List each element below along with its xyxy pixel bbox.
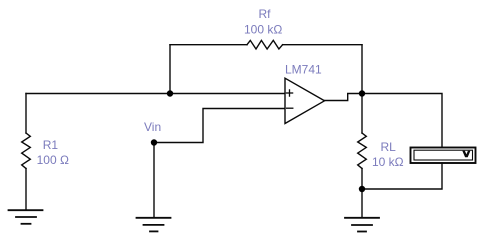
svg-text:Vin: Vin <box>144 120 161 134</box>
wire: R1 bottom to ground <box>25 169 27 211</box>
resistor R1 <box>22 133 31 169</box>
op-amp minus input marker <box>287 107 293 109</box>
wire: Vin node down to ground <box>153 143 155 218</box>
resistor Rf <box>247 40 283 49</box>
op-amp plus input marker <box>286 90 292 96</box>
label: voltmeter V symbol <box>462 151 470 158</box>
svg-text:100 Ω: 100 Ω <box>37 153 69 167</box>
wire: lower node to ground <box>361 189 363 218</box>
voltmeter M1 inner frame <box>414 150 473 160</box>
op-amp U1 LM741 triangle <box>285 78 325 123</box>
wire: RL bottom to lower node <box>361 169 363 190</box>
wire: output node to voltmeter top <box>362 94 442 148</box>
svg-text:LM741: LM741 <box>285 63 322 77</box>
wire: output node down to RL <box>361 94 363 134</box>
ground (below Vin) <box>137 218 171 232</box>
node: output junction dot <box>359 90 365 96</box>
svg-text:R1: R1 <box>43 138 59 152</box>
wire: op-amp output with step up to node <box>325 94 363 101</box>
svg-text:10 kΩ: 10 kΩ <box>372 155 404 169</box>
node: junction dot at inverting/feedback tap <box>167 90 173 96</box>
wire: main non-inverting net horizontal <box>26 93 285 95</box>
wire: feedback top right segment <box>283 44 362 46</box>
wire: feedback top left segment <box>170 44 247 46</box>
wire: feedback vertical left <box>169 45 171 94</box>
node: Vin terminal dot <box>151 139 157 145</box>
svg-text:Rf: Rf <box>259 7 272 21</box>
wire: voltmeter bottom to lower node <box>362 163 442 189</box>
resistor RL <box>358 133 367 169</box>
svg-text:RL: RL <box>381 140 397 154</box>
voltmeter M1 outer frame <box>411 148 476 164</box>
svg-text:100 kΩ: 100 kΩ <box>244 23 282 37</box>
wire: feedback vertical right down to output node <box>361 45 363 94</box>
wire: inverting input from Vin <box>154 109 285 143</box>
wire: left vertical from net down to R1 <box>25 94 27 134</box>
ground (left, below R1) <box>9 210 43 224</box>
ground (below RL) <box>345 218 379 232</box>
node: lower junction dot at RL bottom <box>359 186 365 192</box>
